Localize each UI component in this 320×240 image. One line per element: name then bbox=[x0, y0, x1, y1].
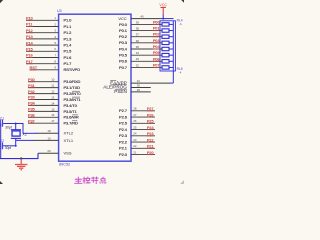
pin 7 P1.6 wire + net label P16 bbox=[26, 53, 72, 60]
svg-text:P04: P04 bbox=[153, 44, 161, 49]
svg-text:P1.4: P1.4 bbox=[64, 42, 73, 47]
svg-text:P24: P24 bbox=[147, 125, 155, 130]
svg-text:P0.2: P0.2 bbox=[119, 34, 128, 39]
svg-text:12: 12 bbox=[51, 90, 55, 94]
svg-text:13: 13 bbox=[51, 95, 55, 99]
svg-text:P1.2: P1.2 bbox=[64, 30, 73, 35]
svg-text:P02: P02 bbox=[153, 32, 161, 37]
pin 12 P3.2 wire + net label P32 bbox=[28, 89, 81, 96]
svg-text:P36: P36 bbox=[28, 113, 36, 118]
svg-text:P13: P13 bbox=[26, 34, 34, 39]
svg-text:P1.6: P1.6 bbox=[64, 55, 73, 60]
svg-text:89C52: 89C52 bbox=[59, 162, 70, 166]
svg-text:P2.1: P2.1 bbox=[119, 146, 128, 151]
svg-text:P26: P26 bbox=[147, 112, 155, 117]
svg-text:P11: P11 bbox=[26, 22, 33, 27]
pin 33 P0.6 wire + pull-up resistor 7 of RL4 + net label P06 bbox=[119, 56, 173, 63]
svg-text:P0.6: P0.6 bbox=[119, 59, 128, 64]
svg-text:P2.3: P2.3 bbox=[119, 133, 128, 138]
page corner mark bottom-right bbox=[180, 180, 184, 184]
pin 11 P3.1 wire + net label P31 bbox=[28, 83, 80, 90]
svg-text:32: 32 bbox=[136, 63, 140, 67]
svg-text:P0.7: P0.7 bbox=[119, 65, 128, 70]
svg-text:P32: P32 bbox=[28, 89, 36, 94]
pin 30 ALE/PROG stub wire bbox=[103, 83, 150, 89]
svg-text:16: 16 bbox=[51, 113, 55, 117]
svg-text:P34: P34 bbox=[28, 101, 36, 106]
pin 31 EA/VPP wire to VCC bus bbox=[110, 79, 173, 85]
junction crystal top bbox=[15, 123, 17, 125]
svg-text:P0.5: P0.5 bbox=[119, 53, 128, 58]
wire ground left rail vertical bbox=[0, 124, 2, 159]
C2 value 30pf bbox=[5, 146, 12, 150]
svg-text:24: 24 bbox=[133, 132, 137, 136]
svg-text:36: 36 bbox=[136, 39, 140, 43]
power symbol VCC bbox=[159, 3, 167, 19]
pin 37 P0.2 wire + pull-up resistor 3 of RL4 + net label P02 bbox=[119, 32, 173, 39]
svg-text:P0.0: P0.0 bbox=[119, 22, 128, 27]
pin 34 P0.5 wire + pull-up resistor 6 of RL4 + net label P05 bbox=[119, 50, 173, 57]
svg-text:P21: P21 bbox=[147, 144, 155, 149]
designator U3 bbox=[57, 9, 62, 13]
wire C2 to crystal bbox=[3, 145, 16, 147]
svg-text:P2.4: P2.4 bbox=[119, 127, 128, 132]
pin 2 P1.1 wire + net label P11 bbox=[26, 22, 72, 29]
svg-text:P27: P27 bbox=[147, 106, 155, 111]
svg-text:P1.3: P1.3 bbox=[64, 36, 73, 41]
svg-text:17: 17 bbox=[51, 119, 55, 123]
pin 4 P1.3 wire + net label P13 bbox=[26, 34, 72, 41]
capacitor C1 plates bbox=[1, 120, 3, 127]
svg-text:P03: P03 bbox=[153, 38, 161, 43]
pin 8 P1.7 wire + net label P17 bbox=[26, 59, 72, 66]
svg-text:18: 18 bbox=[47, 129, 51, 133]
svg-text:P37: P37 bbox=[28, 118, 36, 123]
svg-text:P1.7: P1.7 bbox=[64, 61, 73, 66]
pin 13 P3.3 wire + net label P33 bbox=[28, 95, 81, 102]
svg-text:P2.5: P2.5 bbox=[119, 121, 128, 126]
pin 6 P1.5 wire + net label P15 bbox=[26, 47, 72, 54]
svg-text:C1: C1 bbox=[0, 117, 4, 121]
svg-text:P00: P00 bbox=[153, 19, 161, 24]
resistor network RL4/RL5 outline box bbox=[160, 21, 175, 71]
page corner mark top-right bbox=[181, 0, 184, 3]
svg-text:27: 27 bbox=[133, 113, 137, 117]
page corner mark top-left bbox=[0, 0, 3, 3]
svg-text:33: 33 bbox=[136, 57, 140, 61]
svg-text:P1.1: P1.1 bbox=[64, 24, 73, 29]
svg-text:XTL1: XTL1 bbox=[64, 138, 74, 143]
pin 15 P3.5 wire + net label P35 bbox=[28, 107, 78, 114]
svg-text:11: 11 bbox=[51, 84, 54, 88]
svg-text:21: 21 bbox=[133, 150, 137, 154]
svg-text:P3.3/INT1: P3.3/INT1 bbox=[64, 97, 82, 102]
svg-text:40: 40 bbox=[140, 15, 144, 19]
svg-text:29: 29 bbox=[137, 88, 141, 92]
svg-text:PSEN: PSEN bbox=[114, 89, 127, 94]
pin 38 P0.1 wire + pull-up resistor 2 of RL4 + net label P01 bbox=[119, 26, 173, 33]
junction VCC stem bbox=[162, 18, 164, 20]
svg-text:28: 28 bbox=[133, 107, 137, 111]
pin 18 XTL2 wire bbox=[23, 129, 74, 136]
svg-text:35: 35 bbox=[136, 45, 140, 49]
pin 27 P2.6 wire + net label P26 bbox=[119, 112, 155, 119]
svg-text:30pf: 30pf bbox=[5, 146, 12, 150]
svg-text:37: 37 bbox=[136, 33, 140, 37]
pin 3 P1.2 wire + net label P12 bbox=[26, 28, 72, 35]
C1 value 30pf bbox=[5, 125, 12, 129]
svg-text:22: 22 bbox=[133, 144, 137, 148]
svg-text:P12: P12 bbox=[26, 28, 34, 33]
svg-text:15: 15 bbox=[51, 107, 55, 111]
svg-text:P3.0/RXD: P3.0/RXD bbox=[64, 79, 81, 84]
svg-text:P20: P20 bbox=[147, 150, 155, 155]
pin 32 P0.7 wire + pull-up resistor 8 of RL4 + net label P07 bbox=[119, 62, 173, 69]
svg-text:P3.4/T0: P3.4/T0 bbox=[64, 103, 78, 108]
svg-text:P0.3: P0.3 bbox=[119, 40, 128, 45]
pin 10 P3.0 wire + net label P30 bbox=[28, 77, 81, 84]
svg-text:P1.0: P1.0 bbox=[64, 18, 73, 23]
svg-text:P2.7: P2.7 bbox=[119, 108, 128, 113]
svg-text:P3.2/INT0: P3.2/INT0 bbox=[64, 91, 82, 96]
svg-text:P3.7/RD: P3.7/RD bbox=[64, 121, 79, 126]
svg-text:4: 4 bbox=[180, 71, 182, 75]
svg-text:P17: P17 bbox=[26, 59, 34, 64]
pin 25 P2.4 wire + net label P24 bbox=[119, 125, 155, 132]
pin 39 P0.0 wire + pull-up resistor 1 of RL4 + net label P00 bbox=[119, 19, 173, 26]
ground symbol bbox=[15, 159, 27, 170]
pin 23 P2.2 wire + net label P22 bbox=[119, 137, 155, 144]
crystal X2 label bbox=[22, 132, 26, 136]
pin 20 VSS wire bbox=[38, 149, 72, 155]
svg-text:P2.6: P2.6 bbox=[119, 114, 128, 119]
capacitor C2 label bbox=[0, 139, 4, 143]
svg-text:P07: P07 bbox=[153, 62, 161, 67]
svg-text:P16: P16 bbox=[26, 53, 34, 58]
pin 19 XTL1 wire bbox=[16, 136, 74, 142]
svg-text:RST: RST bbox=[30, 65, 38, 70]
svg-text:34: 34 bbox=[136, 51, 140, 55]
svg-text:20: 20 bbox=[47, 149, 51, 153]
svg-text:P3.1/TXD: P3.1/TXD bbox=[64, 85, 81, 90]
svg-text:P0.4: P0.4 bbox=[119, 46, 128, 51]
pin 29 PSEN stub wire bbox=[114, 88, 150, 94]
svg-text:VSS: VSS bbox=[64, 151, 72, 156]
svg-text:XTL2: XTL2 bbox=[64, 131, 74, 136]
pin 24 P2.3 wire + net label P23 bbox=[119, 131, 155, 138]
wire XTL2 step bbox=[22, 124, 24, 134]
schematic title 主控节点 (drawn strokes, CJK-safe) bbox=[75, 177, 106, 184]
pin 1 P1.0 wire + net label P10 bbox=[26, 16, 72, 23]
svg-text:23: 23 bbox=[133, 138, 137, 142]
part value 89C52 bbox=[59, 162, 70, 166]
svg-text:P25: P25 bbox=[147, 119, 155, 124]
svg-text:P10: P10 bbox=[26, 16, 34, 21]
designator RL4 bbox=[177, 18, 183, 26]
crystal X2 bbox=[11, 130, 21, 139]
junction ground bbox=[20, 157, 22, 159]
svg-text:P22: P22 bbox=[147, 137, 155, 142]
svg-text:39: 39 bbox=[136, 20, 140, 24]
pin 26 P2.5 wire + net label P25 bbox=[119, 119, 155, 126]
IC U3 89C52 microcontroller body bbox=[59, 14, 131, 161]
designator RL5 bbox=[177, 67, 183, 75]
svg-text:P06: P06 bbox=[153, 56, 161, 61]
wire VSS rail bbox=[0, 153, 39, 158]
svg-text:P05: P05 bbox=[153, 50, 161, 55]
svg-text:P33: P33 bbox=[28, 95, 36, 100]
capacitor C1 label bbox=[0, 117, 4, 121]
svg-text:P0.1: P0.1 bbox=[119, 28, 128, 33]
svg-text:25: 25 bbox=[133, 125, 137, 129]
svg-text:14: 14 bbox=[51, 101, 55, 105]
svg-text:26: 26 bbox=[133, 119, 137, 123]
page corner mark bottom-left bbox=[0, 181, 3, 184]
svg-text:P2.2: P2.2 bbox=[119, 139, 128, 144]
wire C1 to XTL2 node bbox=[3, 123, 23, 125]
svg-text:10: 10 bbox=[51, 78, 55, 82]
svg-text:P31: P31 bbox=[28, 83, 36, 88]
pin 9 RST wire + net label RST bbox=[30, 65, 81, 72]
svg-text:P3.5/T1: P3.5/T1 bbox=[64, 109, 78, 114]
svg-text:VCC: VCC bbox=[118, 16, 127, 21]
svg-text:P14: P14 bbox=[26, 40, 34, 45]
capacitor C2 plates bbox=[1, 142, 3, 149]
wire crystal top stem bbox=[15, 124, 17, 130]
pin 28 P2.7 wire + net label P27 bbox=[119, 106, 155, 113]
svg-text:P23: P23 bbox=[147, 131, 155, 136]
pin 35 P0.4 wire + pull-up resistor 5 of RL4 + net label P04 bbox=[119, 44, 173, 51]
svg-text:P1.5: P1.5 bbox=[64, 49, 73, 54]
wire crystal bottom stem bbox=[15, 138, 17, 145]
wire common bus to VCC and EA bbox=[172, 21, 174, 83]
svg-text:P30: P30 bbox=[28, 77, 36, 82]
pin 40 VCC wire bbox=[118, 15, 173, 21]
svg-text:VCC: VCC bbox=[159, 3, 167, 7]
pin 17 P3.7 wire + net label P37 bbox=[28, 118, 78, 125]
junction crystal bottom bbox=[15, 145, 17, 147]
pin 5 P1.4 wire + net label P14 bbox=[26, 40, 72, 47]
svg-text:19: 19 bbox=[47, 136, 51, 140]
svg-text:P01: P01 bbox=[153, 26, 161, 31]
pin 16 P3.6 wire + net label P36 bbox=[28, 113, 79, 120]
svg-text:31: 31 bbox=[137, 79, 141, 83]
svg-text:30: 30 bbox=[137, 83, 141, 87]
pin 36 P0.3 wire + pull-up resistor 4 of RL4 + net label P03 bbox=[119, 38, 173, 45]
svg-text:U3: U3 bbox=[57, 9, 62, 13]
pin 21 P2.0 wire + net label P20 bbox=[119, 150, 155, 157]
svg-text:P2.0: P2.0 bbox=[119, 152, 128, 157]
pin 22 P2.1 wire + net label P21 bbox=[119, 144, 155, 151]
svg-text:P3.6/WR: P3.6/WR bbox=[64, 115, 79, 120]
svg-text:P15: P15 bbox=[26, 47, 34, 52]
svg-text:P35: P35 bbox=[28, 107, 36, 112]
pin 14 P3.4 wire + net label P34 bbox=[28, 101, 78, 108]
svg-text:RST/VPD: RST/VPD bbox=[64, 67, 81, 72]
svg-text:38: 38 bbox=[136, 26, 140, 30]
svg-text:30pf: 30pf bbox=[5, 125, 12, 129]
